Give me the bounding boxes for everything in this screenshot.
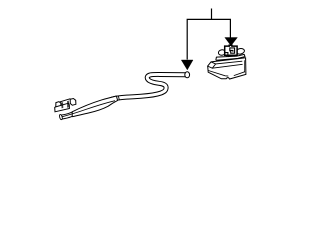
clip back rim top edge (60, 99, 71, 103)
clip wings on connector (218, 48, 245, 56)
connector right lip line (234, 72, 245, 76)
connector top face front edge (216, 61, 243, 64)
connector lid edge (212, 64, 242, 68)
wire tail end cap (59, 114, 63, 120)
callout bracket (187, 19, 230, 59)
connector silhouette (208, 58, 246, 79)
clip right post (70, 99, 76, 106)
clip left post (56, 102, 61, 109)
connector slot line (208, 71, 228, 77)
clip head on connector (225, 45, 237, 57)
clip inner slot lines (62, 101, 69, 108)
left wing (218, 49, 226, 56)
clip (left retainer) (55, 99, 76, 112)
boot seam second line (118, 96, 119, 101)
wire (cable tube) (61, 74, 185, 117)
wire boot (tapered sleeve near clip) (62, 96, 120, 117)
callout tick (211, 9, 213, 20)
clip back rim band (60, 99, 70, 103)
connector platform (216, 54, 245, 60)
head maze pattern (230, 48, 235, 53)
arrowhead left (181, 60, 193, 70)
head inner corner mark (225, 53, 228, 55)
connector right edge inner line (243, 60, 245, 72)
connector body (208, 58, 246, 79)
clip front wall (55, 103, 70, 112)
boot mid shading line (62, 101, 115, 117)
head neck (227, 55, 235, 57)
right wing (236, 48, 245, 55)
arrowhead right (225, 38, 238, 46)
connector end cap (208, 62, 216, 68)
wire end cap (185, 72, 190, 78)
